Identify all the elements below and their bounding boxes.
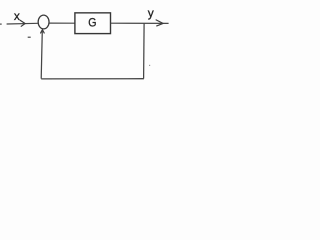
svg-text:y: y [148,6,154,20]
summing junction [38,15,49,29]
wire: feedback vertical right [143,23,146,78]
wire: input lead speck at left edge [0,23,2,25]
svg-text:x: x [14,9,20,23]
node: feedback arrowhead into summing junction [41,30,45,33]
wire: feedback bottom horizontal [41,78,144,80]
node: output arrowhead [156,20,163,26]
wire: summing junction to block G [49,22,75,24]
wire: feedback vertical left [41,30,42,79]
svg-text:G: G [88,17,96,30]
scan speckle [149,65,150,66]
wire: output line y [111,22,169,24]
minus sign [28,36,31,38]
node: input arrowhead [20,20,25,26]
background [0,0,172,88]
wire: input line into summing junction [7,22,38,25]
block G [75,13,111,34]
